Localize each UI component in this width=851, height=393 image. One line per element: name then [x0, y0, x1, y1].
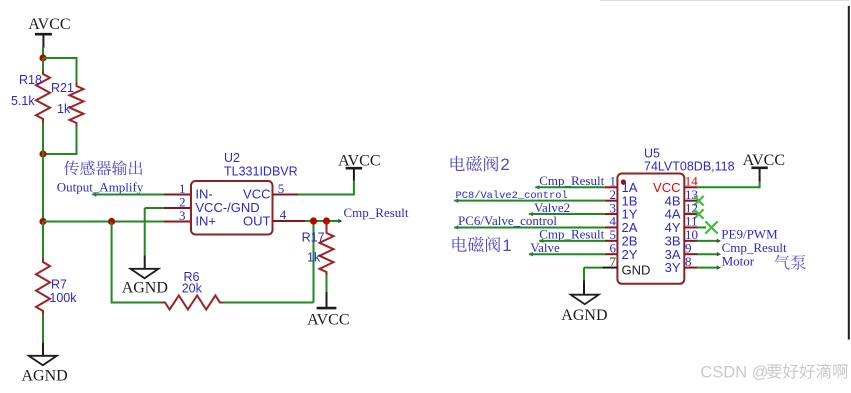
svg-text:R7: R7 — [51, 278, 67, 292]
svg-text:Valve: Valve — [530, 240, 560, 255]
node B junction (R18/R21 bottom) — [39, 150, 46, 157]
svg-text:4: 4 — [280, 207, 287, 222]
U5 pin 2 — [605, 187, 618, 202]
svg-text:2: 2 — [500, 155, 509, 174]
ground AGND (U5) — [561, 295, 607, 325]
svg-text:AVCC: AVCC — [743, 152, 785, 169]
svg-text:OUT: OUT — [243, 214, 271, 229]
wire Output_Amplify to U2 pin 1 — [92, 192, 164, 196]
and-gate IC U5 74LVT08DB,118 — [617, 174, 684, 284]
wire U5 pin7 to AGND — [584, 268, 602, 295]
svg-text:TL331IDBVR: TL331IDBVR — [224, 165, 298, 179]
svg-text:Cmp_Result: Cmp_Result — [539, 173, 604, 188]
U5 pin 4 — [605, 214, 618, 229]
node E junction (output to R6 branch) — [310, 217, 317, 224]
svg-text:20k: 20k — [182, 282, 203, 296]
resistor R21 — [70, 82, 84, 127]
svg-text:1k: 1k — [307, 250, 321, 264]
label air pump (chinese) — [774, 255, 806, 270]
label sensor output (chinese) — [64, 160, 142, 175]
wire U5 pin2 — [454, 198, 605, 202]
wire U5 pin9 — [697, 252, 721, 256]
label U5 designator — [644, 147, 735, 174]
sheet border line (right) — [848, 6, 850, 340]
svg-text:Motor: Motor — [722, 253, 755, 268]
wire U5 pin8 — [697, 265, 721, 269]
label R21 value 1k — [51, 81, 74, 116]
U2 pin 4 (OUT) — [273, 207, 307, 222]
svg-text:AGND: AGND — [122, 279, 168, 296]
U5 pin 1 — [605, 174, 618, 189]
U2 pin 2 (VCC-/GND) — [164, 194, 191, 209]
U5 pin 12 (no connect) — [684, 200, 698, 215]
U5 pin 3 — [605, 200, 618, 215]
svg-text:Cmp_Result: Cmp_Result — [344, 205, 409, 220]
svg-text:Output_Amplify: Output_Amplify — [57, 180, 144, 195]
label R17 value 1k — [302, 231, 325, 265]
ground AGND (R7 bottom) — [22, 356, 68, 385]
resistor R17 — [320, 221, 334, 276]
op-amp comparator U2 TL331IDBVR — [191, 181, 273, 235]
wire U5 pin14 to AVCC — [697, 167, 760, 189]
svg-text:R18: R18 — [19, 73, 42, 87]
label R6 value 20k — [182, 270, 203, 296]
wire U5 pin1 — [535, 185, 605, 189]
svg-text:R21: R21 — [51, 81, 74, 95]
resistor R18 — [36, 70, 50, 123]
resistor R6 — [161, 296, 224, 310]
svg-text:AGND: AGND — [22, 367, 68, 384]
resistor R7 — [36, 222, 50, 316]
wire branch to R21 top — [43, 57, 78, 82]
label R18 value 5.1k — [11, 73, 42, 108]
node F junction (R17 top) — [323, 217, 330, 224]
svg-text:5: 5 — [278, 181, 285, 196]
wire R21 bottom to node B — [43, 126, 78, 155]
svg-text:3: 3 — [179, 208, 186, 223]
wire node D down to R6 — [112, 222, 163, 304]
ground AGND (U2 pin 2) — [122, 269, 168, 297]
svg-text:8: 8 — [685, 254, 692, 269]
U2 pin 3 (IN+) — [164, 208, 191, 223]
svg-text:5.1k: 5.1k — [11, 94, 35, 108]
svg-text:U2: U2 — [224, 151, 240, 165]
svg-text:7: 7 — [610, 254, 617, 269]
wire R6 to R17 bottom branch — [223, 220, 314, 303]
wire R18 top — [42, 58, 44, 71]
label solenoid valve 1 (chinese) — [452, 236, 511, 255]
U5 pin 13 (no connect) — [684, 187, 698, 202]
node A junction (R18/R21 top) — [39, 54, 46, 61]
no-ERC cross pin 11 — [705, 221, 717, 233]
U2 pin 1 (IN-) — [164, 181, 191, 196]
wire U2 pin5 to AVCC — [298, 167, 354, 196]
power AVCC (right, U5) — [743, 152, 785, 169]
U5 pin 14 (VCC) — [684, 174, 698, 189]
no-ERC cross pin 12 — [694, 209, 704, 219]
label R7 value 100k — [49, 278, 77, 306]
label solenoid valve 2 (chinese) — [451, 155, 510, 174]
svg-text:VCC-/GND: VCC-/GND — [195, 200, 259, 215]
watermark CSDN @username — [700, 364, 847, 382]
svg-text:2Y: 2Y — [622, 247, 638, 262]
U5 pin 8 (3Y) — [684, 254, 698, 269]
svg-text:1: 1 — [502, 236, 511, 255]
wire U5 pin6 — [529, 252, 605, 256]
power AVCC (below R17) — [307, 308, 349, 328]
U5 pin 7 (GND) — [602, 254, 617, 269]
wire R7 to AGND — [42, 314, 44, 356]
U5 pin 6 — [605, 240, 618, 255]
power AVCC (above U2) — [338, 153, 380, 170]
svg-text:3Y: 3Y — [665, 260, 681, 275]
U5 pin 11 (no connect) — [684, 214, 706, 229]
svg-text:1k: 1k — [57, 102, 71, 116]
wire U5 pin10 — [697, 239, 721, 243]
svg-text:CSDN @: CSDN @ — [700, 364, 768, 382]
sheet border line (top) — [600, 0, 849, 2]
wire U2 pin2 to AGND branch — [145, 208, 164, 269]
svg-text:GND: GND — [622, 263, 651, 278]
wire node B down to node C — [42, 123, 44, 223]
wire main horizontal to U2 pin 3 — [43, 221, 164, 223]
svg-text:AVCC: AVCC — [28, 16, 70, 33]
svg-text:74LVT08DB,118: 74LVT08DB,118 — [644, 159, 735, 173]
power AVCC (top left) — [28, 16, 70, 48]
svg-text:100k: 100k — [49, 291, 77, 305]
wire U5 pin3 — [529, 212, 605, 216]
label U2 designator — [224, 151, 298, 179]
no-ERC cross pin 13 — [694, 196, 704, 206]
svg-text:R17: R17 — [302, 231, 325, 245]
wire R17 to AVCC (pull-up) — [326, 275, 328, 307]
svg-text:AVCC: AVCC — [307, 312, 349, 329]
wire AVCC to node A — [42, 47, 44, 58]
U5 pin 5 — [605, 227, 618, 242]
svg-text:IN+: IN+ — [195, 214, 216, 229]
svg-text:AGND: AGND — [561, 307, 607, 324]
U5 pin 10 (3B) — [684, 227, 698, 242]
wire U5 pin4 — [454, 225, 605, 229]
wire U5 pin5 — [539, 239, 605, 243]
wire U2 pin4 output net — [305, 219, 342, 223]
U5 pin 9 (3A) — [684, 240, 698, 255]
U2 pin 5 (VCC) — [273, 181, 300, 196]
node C junction (main wire) — [39, 218, 46, 225]
node D junction (R6 branch) — [108, 218, 115, 225]
